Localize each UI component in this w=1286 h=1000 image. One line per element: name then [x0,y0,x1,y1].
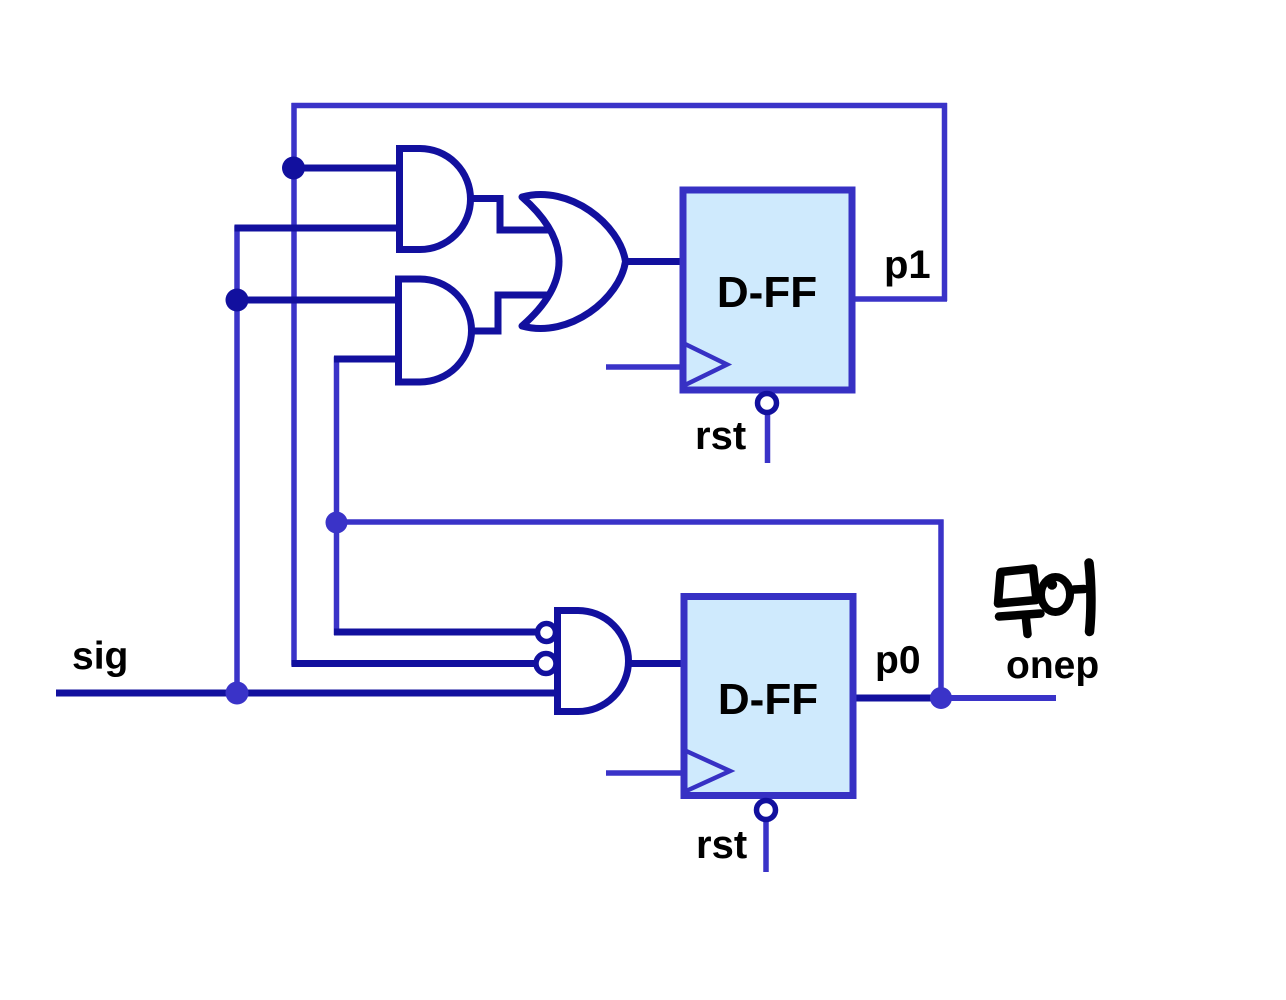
wire: p0 feedback right vertical (x=941) down to output node [938,520,944,699]
wire: p1 output horizontal from D-FF U1 to feedback vertical [853,296,947,302]
and gate A2 [399,279,472,382]
wire: sig input horizontal (y=693) [56,690,558,697]
svg-text:D-FF: D-FF [718,675,818,724]
reset bubble of U2 [757,801,776,820]
wire: clock input of D-FF U1 (y=367) [606,364,684,370]
wire: p1 feedback right vertical (x=944.5) [942,103,948,301]
label rst (U1) [695,414,746,458]
D flip-flop U1 body [683,190,852,390]
wire: clock input of D-FF U2 (y=773) [606,770,685,776]
label p0 [875,639,921,682]
wire: rst vertical below D-FF U2 reset bubble [763,821,769,872]
node: junction p0 feedback / vertical (medium) [326,512,348,534]
wire: AND A1 lower input stub (sig net, y=228) [235,225,402,232]
annotation: handwritten Korean 무어 (Moore) [998,563,1091,634]
D flip-flop U2 body [684,597,853,796]
reset bubble of U1 [758,394,777,413]
wire: OR O1 output to D-FF U1 D input [624,258,684,265]
wire: p0 output stub from D-FF U2 to node [854,695,941,702]
wire: NAND A3 output to D-FF U2 D input [628,660,685,667]
wire: rst vertical below D-FF U1 reset bubble [765,414,771,463]
node: junction sig net / AND A2 input (dark) [226,289,249,312]
svg-text:D-FF: D-FF [717,268,817,317]
label p1 [884,243,931,287]
svg-text:rst: rst [696,823,747,867]
wire: p0 feedback horizontal (y=522) [334,519,944,525]
wire: AND A1 output step to OR O1 upper input [468,199,552,231]
annotation: 어 circle with pen curl [1041,577,1070,612]
wire: NAND A3 input stub 1 (p0 net, y=632) [334,629,536,636]
D flip-flop U1 label [717,268,817,317]
node: junction p1 net / AND A1 input (dark) [282,157,305,180]
wire: AND A2 lower input stub (p0 net, y=359) [334,356,400,363]
svg-text:p0: p0 [875,639,921,682]
label sig [72,635,128,678]
input bubble 2 of A3 [536,654,556,674]
wire: AND A2 output step to OR O1 lower input [469,295,552,331]
svg-text:sig: sig [72,635,128,678]
D flip-flop U2 label [718,675,818,724]
svg-text:rst: rst [695,414,746,458]
wire: p0 net vertical (x=336.5) between AND A2 input and NAND input [334,357,340,636]
wire: AND A1 upper input stub from node (p1 net, y=168) [293,165,401,172]
svg-text:onep: onep [1006,644,1099,687]
wire: sig net vertical (x=237) from AND A1 lower input down to sig line [234,226,240,696]
clock triangle of U2 [684,750,730,792]
label rst (U2) [696,823,747,867]
wire: NAND A3 input stub 2 (p1 net, y=663.5) [292,660,536,667]
or gate O1 [522,195,626,329]
node: junction p0 output / onep (medium) [930,687,952,709]
wire: top feedback horizontal (p1 net, y=105) [292,103,948,109]
node: junction sig input (medium) [226,682,249,705]
clock triangle of U1 [683,343,727,386]
svg-text:p1: p1 [884,243,931,287]
wire: p1 net left vertical (x=294) from top loop down to NAND input [291,103,297,666]
wire: onep output (right of node, y=699) [941,695,1056,701]
input bubble 1 of A3 [538,624,556,642]
nand gate A3 (two inverted inputs) [558,611,629,712]
and gate A1 [400,149,471,250]
wire: AND A2 upper input stub (sig net, y=300) [237,297,400,304]
label onep [1006,644,1099,687]
